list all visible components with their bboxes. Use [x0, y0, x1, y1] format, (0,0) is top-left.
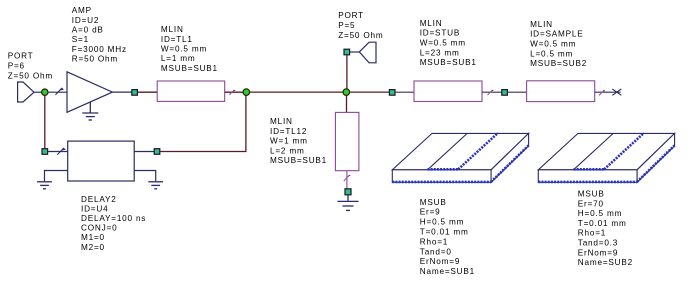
MLIN SAMPLE: [527, 81, 595, 102]
svg-text:Er=9: Er=9: [420, 208, 441, 217]
wire DELAY2 box to output terminal: [134, 151, 154, 153]
wire node B to node C: [250, 91, 343, 93]
ground (DELAY2 left): [37, 182, 52, 189]
svg-text:W=0.5 mm: W=0.5 mm: [161, 45, 207, 54]
svg-text:R=50 Ohm: R=50 Ohm: [72, 55, 118, 64]
svg-text:Z=50 Ohm: Z=50 Ohm: [8, 71, 53, 80]
wire node C down to TL12: [346, 95, 348, 112]
open end X: [612, 89, 621, 95]
svg-text:ID=SAMPLE: ID=SAMPLE: [530, 30, 583, 39]
svg-text:ID=TL12: ID=TL12: [270, 127, 307, 136]
wire SAMPLE to open end: [595, 91, 621, 93]
terminal square (STUB input): [389, 90, 395, 96]
svg-text:MSUB=SUB2: MSUB=SUB2: [530, 59, 587, 68]
terminal square (TL12 bottom): [345, 189, 351, 195]
pin arrow amp U2 input: [56, 88, 63, 95]
svg-text:Name=SUB1: Name=SUB1: [420, 267, 475, 276]
svg-text:S=1: S=1: [72, 35, 89, 44]
DELAY2 U4 label: [81, 195, 146, 252]
svg-text:ErNom=9: ErNom=9: [420, 257, 460, 266]
terminal square (amp output): [132, 90, 138, 96]
svg-text:Z=50 Ohm: Z=50 Ohm: [338, 31, 383, 40]
pin slash TL1 pin 2: [229, 90, 235, 95]
wire port P6 to node A: [34, 91, 42, 93]
svg-text:MLIN: MLIN: [420, 19, 443, 28]
terminal square (DELAY2 input): [42, 149, 48, 155]
MSUB SUB1 substrate drawing: [392, 133, 528, 182]
svg-text:Rho=1: Rho=1: [420, 237, 448, 246]
svg-text:W=0.5 mm: W=0.5 mm: [420, 39, 466, 48]
MSUB SUB2 substrate drawing: [538, 133, 674, 182]
svg-text:Er=70: Er=70: [578, 199, 604, 208]
svg-text:H=0.5 mm: H=0.5 mm: [420, 218, 464, 227]
amp U2 label: [72, 6, 127, 64]
pin arrow DELAY2 pin 1: [57, 148, 64, 154]
svg-text:MLIN: MLIN: [270, 117, 293, 126]
wire node B down to DELAY2 output: [160, 95, 246, 151]
svg-text:MLIN: MLIN: [530, 20, 553, 29]
terminal square (DELAY2 output): [154, 149, 160, 155]
svg-text:DELAY=100 ns: DELAY=100 ns: [81, 214, 146, 223]
terminal square (port P5): [344, 49, 350, 55]
svg-text:MSUB=SUB1: MSUB=SUB1: [161, 64, 218, 73]
svg-text:ID=STUB: ID=STUB: [420, 29, 460, 38]
svg-text:PORT: PORT: [8, 51, 34, 60]
svg-text:MSUB=SUB1: MSUB=SUB1: [420, 58, 477, 67]
svg-text:MSUB: MSUB: [420, 198, 447, 207]
op-amp U2: [67, 72, 112, 113]
pin slash SAMPLE pin 2: [599, 90, 605, 95]
wire node C to terminal: [350, 91, 390, 93]
MLIN STUB: [414, 81, 482, 102]
wire node A to amp U2 input: [48, 91, 67, 93]
MSUB SUB2 label: [578, 190, 633, 268]
MLIN SAMPLE label: [530, 20, 587, 68]
terminal square (STUB/SAMPLE): [502, 90, 508, 96]
svg-text:P=6: P=6: [8, 61, 25, 70]
wire TL1 to node B: [225, 91, 243, 93]
svg-text:H=0.5 mm: H=0.5 mm: [578, 209, 622, 218]
port P5 label: [338, 11, 383, 40]
port P5: [359, 42, 376, 63]
svg-text:T=0.01 mm: T=0.01 mm: [420, 228, 469, 237]
wire STUB to terminal: [482, 91, 502, 93]
svg-text:T=0.01 mm: T=0.01 mm: [578, 219, 627, 228]
wire terminal to STUB: [395, 91, 414, 93]
svg-text:M2=0: M2=0: [81, 243, 105, 252]
wire port P5 down to node C: [346, 55, 348, 89]
svg-text:AMP: AMP: [72, 6, 92, 15]
svg-text:ID=U2: ID=U2: [72, 16, 99, 25]
svg-text:ID=U4: ID=U4: [81, 204, 108, 213]
pin slash TL12 pin 2: [344, 175, 351, 181]
svg-text:W=1 mm: W=1 mm: [270, 137, 308, 146]
svg-text:P=5: P=5: [338, 21, 355, 30]
MLIN TL1: [157, 81, 225, 101]
svg-text:MLIN: MLIN: [161, 25, 184, 34]
MLIN TL12: [335, 112, 359, 170]
MLIN STUB label: [420, 19, 477, 67]
wire DELAY2 left ground pin: [45, 171, 68, 182]
wire terminal to SAMPLE: [507, 91, 526, 93]
pin slash STUB pin 2: [488, 90, 494, 95]
wire amp U2 output to terminal: [112, 91, 131, 93]
node C: [343, 89, 350, 96]
ground (DELAY2 right): [148, 182, 163, 189]
wire terminal to TL1: [137, 91, 157, 93]
DELAY2 U4: [68, 141, 135, 181]
svg-text:W=0.5 mm: W=0.5 mm: [530, 40, 576, 49]
wire DELAY2 input terminal to box: [48, 151, 68, 153]
port P6: [18, 82, 34, 102]
ground (amp U2): [82, 102, 98, 120]
wire DELAY2 right ground pin: [134, 171, 156, 182]
svg-text:M1=0: M1=0: [81, 233, 105, 242]
svg-text:MSUB=SUB1: MSUB=SUB1: [270, 156, 327, 165]
svg-text:A=0 dB: A=0 dB: [72, 26, 104, 35]
svg-text:L=23 mm: L=23 mm: [420, 48, 460, 57]
svg-text:CONJ=0: CONJ=0: [81, 224, 117, 233]
svg-text:L=1 mm: L=1 mm: [161, 54, 196, 63]
svg-text:MSUB: MSUB: [578, 190, 605, 199]
svg-text:PORT: PORT: [338, 11, 364, 20]
MLIN TL1 label: [161, 25, 218, 73]
svg-text:Name=SUB2: Name=SUB2: [578, 258, 633, 267]
wire TL12 down to terminal: [346, 171, 348, 189]
svg-text:ErNom=9: ErNom=9: [578, 248, 618, 257]
wire port P5 terminal to symbol: [350, 51, 360, 53]
node B: [243, 89, 250, 96]
svg-text:Tand=0.3: Tand=0.3: [578, 239, 618, 248]
port P6 label: [8, 51, 53, 80]
wire node A down to DELAY2 input: [44, 95, 46, 148]
svg-text:L=0.5 mm: L=0.5 mm: [530, 49, 573, 58]
svg-text:F=3000 MHz: F=3000 MHz: [72, 45, 127, 54]
svg-text:Tand=0: Tand=0: [420, 247, 452, 256]
svg-text:Rho=1: Rho=1: [578, 229, 606, 238]
ground (TL12): [338, 195, 359, 211]
svg-text:ID=TL1: ID=TL1: [161, 35, 193, 44]
svg-text:DELAY2: DELAY2: [81, 195, 117, 204]
node A: [42, 89, 48, 95]
MLIN TL12 label: [270, 117, 327, 165]
svg-text:L=2 mm: L=2 mm: [270, 146, 305, 155]
MSUB SUB1 label: [420, 198, 475, 276]
